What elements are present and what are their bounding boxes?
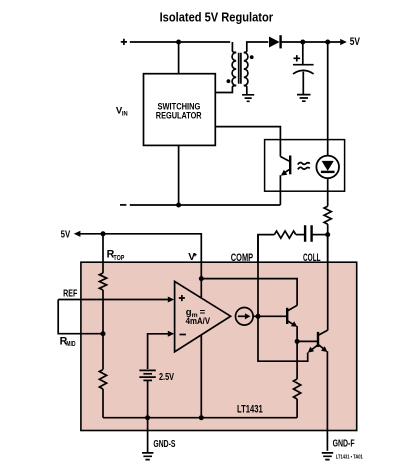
wire cap to coll xyxy=(312,234,328,236)
node LED branch xyxy=(325,40,330,45)
transformer T1 primary winding xyxy=(232,53,236,86)
svg-text:4mA/V: 4mA/V xyxy=(186,316,211,327)
wire opamp gnd xyxy=(200,335,202,418)
5V output arrow xyxy=(340,39,347,45)
plus input sign xyxy=(179,295,185,301)
wire REF-RMID bracket xyxy=(58,300,103,334)
node comp xyxy=(256,314,261,319)
svg-text:GND-S: GND-S xyxy=(153,439,175,450)
wire primary top lead xyxy=(232,42,236,53)
node cap xyxy=(300,40,305,45)
wire RMID to RBOT xyxy=(102,334,104,370)
transistor Q2 xyxy=(308,330,328,353)
wire primary bottom lead xyxy=(215,86,236,93)
wire cap bottom lead xyxy=(302,72,304,95)
wire res to cap xyxy=(296,234,305,236)
wire RBOT bottom lead xyxy=(102,389,104,418)
phase dot primary xyxy=(227,79,231,83)
svg-text:REF: REF xyxy=(63,289,77,300)
wire secondary bottom lead xyxy=(244,86,247,95)
transformer core xyxy=(239,53,241,84)
switching regulator U1 xyxy=(144,74,216,146)
opto phototransistor Q xyxy=(280,156,290,206)
resistor internal xyxy=(296,341,298,379)
node Q1 emitter xyxy=(295,339,300,344)
wire RTOP to RMID node xyxy=(102,290,104,334)
minus terminal xyxy=(120,204,126,206)
resistor R LED xyxy=(324,206,331,224)
wire RTOP top lead xyxy=(102,234,104,273)
wire cap top lead xyxy=(302,42,304,64)
wire resistor to RC node xyxy=(327,224,329,262)
wire GND-F lead xyxy=(326,351,328,451)
wire COLL pin lead xyxy=(327,235,329,331)
wire Q1 emitter down xyxy=(296,326,298,341)
wire opto collector feedback xyxy=(215,127,280,157)
wire top rail right xyxy=(281,41,340,43)
minus input sign xyxy=(180,334,186,336)
ground GND-F xyxy=(322,453,333,460)
ground transformer secondary xyxy=(242,95,254,102)
node battery gnd xyxy=(145,415,150,420)
resistor RC xyxy=(274,231,295,238)
V+ label xyxy=(188,252,197,263)
transformer T1 secondary winding xyxy=(244,53,248,86)
resistor RTOP xyxy=(99,273,106,290)
optocoupler box xyxy=(265,140,345,192)
svg-text:LT1431: LT1431 xyxy=(237,404,263,416)
battery 2.5V reference xyxy=(139,370,155,380)
svg-text:MID: MID xyxy=(66,341,75,348)
wire minus input to reference xyxy=(148,334,169,369)
VIN label xyxy=(116,105,128,117)
wire Q1 emitter to Q2 base xyxy=(297,340,317,342)
wire internal ground rail xyxy=(103,417,297,419)
wire comp node down feedback xyxy=(258,316,308,361)
5V arrow lower left xyxy=(74,231,81,237)
node opamp gnd xyxy=(199,415,204,420)
capacitor C comp xyxy=(305,225,312,242)
wire switching top lead xyxy=(178,42,180,74)
svg-text:TOP: TOP xyxy=(113,255,124,262)
wire battery bottom xyxy=(147,380,149,417)
op-amp error amplifier xyxy=(175,281,231,351)
node RMID xyxy=(101,331,106,336)
opto LED xyxy=(316,42,339,206)
wire comp node to Q1 base xyxy=(258,315,286,317)
wire GND-S lead xyxy=(147,418,149,453)
ground GND-S xyxy=(142,453,153,460)
svg-text:GND-F: GND-F xyxy=(333,439,355,450)
wire 5V rail lower xyxy=(80,234,201,262)
current source output xyxy=(236,308,254,326)
wire switching bottom lead xyxy=(178,145,180,205)
svg-text:5V: 5V xyxy=(61,229,71,240)
diode D1 xyxy=(269,37,280,48)
svg-text:REGULATOR: REGULATOR xyxy=(156,110,202,121)
resistor RBOT xyxy=(99,370,106,390)
node RTOP branch xyxy=(101,231,106,236)
capacitor C1 plus sign xyxy=(294,55,301,61)
node coll RC xyxy=(325,232,330,237)
ground capacitor xyxy=(297,95,311,102)
svg-text:Isolated 5V Regulator: Isolated 5V Regulator xyxy=(160,11,274,25)
wire current source to comp node xyxy=(253,315,258,317)
LT1431 block xyxy=(81,262,357,430)
gm label xyxy=(186,307,206,319)
wire V+ to Q1 collector xyxy=(201,279,297,306)
wire COMP pin lead xyxy=(257,235,259,317)
light waves xyxy=(298,163,310,170)
capacitor C1 xyxy=(293,64,314,66)
svg-text:IN: IN xyxy=(122,110,128,117)
node V+ xyxy=(199,276,204,281)
wire secondary top lead xyxy=(244,42,268,53)
svg-text:2.5V: 2.5V xyxy=(159,372,174,383)
RMID label xyxy=(60,336,76,349)
phase dot secondary xyxy=(250,55,254,59)
RTOP label xyxy=(107,249,125,262)
transistor Q1 xyxy=(287,305,297,327)
wire REF input xyxy=(58,299,168,301)
wire top rail left xyxy=(130,41,230,43)
node top switching xyxy=(176,40,181,45)
arrow REF input xyxy=(168,297,174,303)
node bottom switching xyxy=(176,203,181,208)
svg-text:5V: 5V xyxy=(350,36,361,48)
wire comp top xyxy=(258,235,274,263)
svg-text:LT1431 • TA01: LT1431 • TA01 xyxy=(336,454,363,460)
wire bottom rail xyxy=(130,204,281,206)
wire V+ lead xyxy=(200,262,202,297)
arrow minus input xyxy=(168,331,174,337)
plus terminal xyxy=(121,39,127,45)
